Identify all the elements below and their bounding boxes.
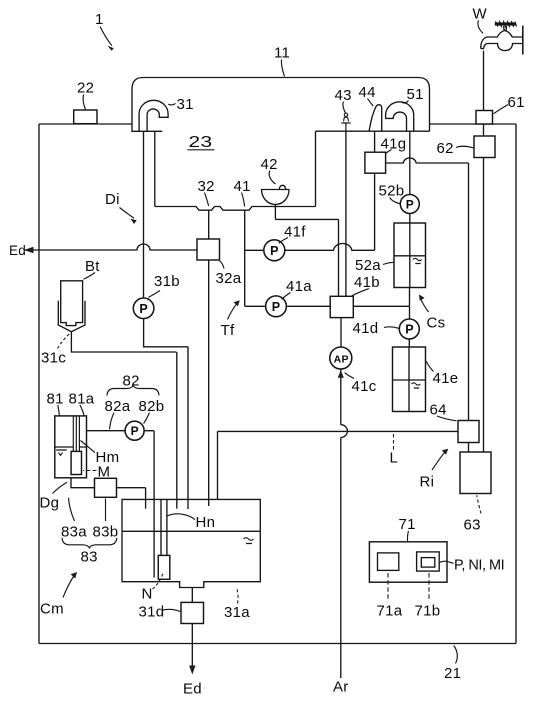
wire AP down with up-arrow, hop over L line, to Ar [341, 369, 348, 678]
svg-text:71: 71 [399, 516, 416, 533]
water level mark in 81 [56, 450, 66, 455]
svg-text:82a: 82a [105, 398, 131, 415]
wire inner chamber left edge down to line A [315, 131, 317, 206]
component 81 degassing vessel [55, 416, 87, 478]
wire 61 to 62 [483, 124, 485, 136]
valve 62 box [474, 136, 495, 158]
component 71b box double border [417, 552, 440, 571]
svg-text:Ri: Ri [420, 474, 435, 491]
wire 52b to tank 52a [409, 214, 411, 224]
svg-text:P: P [405, 323, 414, 337]
svg-text:81a: 81a [69, 391, 95, 408]
wire 62 down to 63 [483, 158, 485, 453]
svg-text:63: 63 [464, 517, 481, 534]
svg-text:41d: 41d [353, 320, 379, 337]
faucet W body [481, 26, 523, 51]
svg-text:Hn: Hn [196, 514, 216, 531]
tank 52a internals [394, 223, 426, 288]
svg-text:31a: 31a [224, 604, 250, 621]
component Bt holder funnel [58, 301, 85, 332]
svg-text:41c: 41c [352, 378, 377, 395]
wire line 32a down to tank [208, 260, 210, 506]
svg-text:P: P [139, 302, 148, 316]
wire line 31c elbow to tank [71, 332, 176, 509]
wire L line [218, 431, 459, 499]
component 83b box [95, 478, 117, 497]
svg-text:21: 21 [444, 665, 461, 682]
pump P 31b [133, 298, 154, 319]
component N float weight [158, 555, 170, 579]
svg-text:L: L [390, 450, 399, 467]
svg-text:P, NI, MI: P, NI, MI [454, 558, 505, 574]
wire faucet supply down to 61 [483, 51, 485, 111]
tank 52a [394, 223, 426, 288]
component 42 funnel [261, 185, 290, 204]
wire sump to 31d [191, 588, 193, 603]
svg-text:31d: 31d [139, 604, 165, 621]
svg-text:31c: 31c [41, 350, 66, 367]
svg-text:44: 44 [359, 84, 376, 101]
wire Ed line with hop over Di line [24, 244, 197, 250]
wire pump 82 outlet elbow into tank [144, 431, 154, 578]
svg-text:P: P [131, 424, 139, 438]
valve 43 symbol [341, 117, 350, 131]
wire 41d to 41e [408, 339, 410, 347]
faucet W handle [495, 22, 516, 25]
wire line 41 vertical [244, 210, 246, 306]
valve 41g box [365, 152, 386, 173]
valve 41b box [330, 296, 353, 317]
svg-text:32a: 32a [216, 270, 242, 287]
controller 71 box [369, 542, 447, 582]
component Bt bottle [61, 281, 83, 326]
wire 41b down to AP [340, 318, 342, 347]
wire 41f line with hop over twin pipes [245, 243, 375, 250]
dip tube Hn [161, 499, 167, 555]
svg-text:Cs: Cs [427, 315, 446, 332]
svg-text:71b: 71b [415, 603, 441, 620]
wire inner chamber top edge y131 [316, 124, 430, 131]
svg-text:71a: 71a [377, 603, 403, 620]
wire line B elbow to pipe [275, 219, 338, 296]
wire 41g to 64 with hop over 52b line [386, 158, 469, 421]
svg-text:P: P [270, 244, 279, 258]
component 22 vent box on tank top [74, 110, 97, 124]
svg-text:41: 41 [234, 178, 251, 195]
svg-text:52a: 52a [355, 257, 381, 274]
wire outer-box-21 top edge right segment [430, 123, 517, 125]
svg-text:31b: 31b [154, 273, 180, 290]
pump P 52b [400, 195, 419, 214]
svg-text:11: 11 [274, 45, 290, 62]
svg-text:P: P [406, 198, 414, 212]
pump P 41a [266, 296, 287, 317]
component 44 flap [369, 105, 382, 132]
wire 81 bottom to 83b [71, 478, 95, 488]
wire line A y206.5 with tee notches [155, 207, 316, 211]
wire hook 51 down to pump 52b [409, 131, 411, 194]
wire 52a to 41d [409, 288, 411, 320]
svg-text:51: 51 [407, 86, 424, 103]
tank 41e [393, 347, 426, 412]
enclosure 11 rounded top box [132, 78, 430, 125]
svg-text:Ed: Ed [9, 243, 26, 258]
wire 81 to pump 82 [87, 430, 126, 432]
component 81 internal divider [55, 446, 87, 448]
pump P 41d [399, 319, 419, 339]
wire pump 31b outlet elbow to tank [144, 319, 188, 509]
wire step at box-11 lower-left / tank-23 ledge [132, 124, 162, 131]
wire 43 line down to 41b [345, 131, 347, 296]
svg-text:23: 23 [189, 134, 213, 151]
svg-text:Cm: Cm [40, 601, 64, 618]
svg-text:W: W [473, 6, 488, 23]
svg-text:41b: 41b [354, 274, 380, 291]
svg-text:22: 22 [77, 80, 94, 97]
water line in tank 31a [122, 530, 260, 532]
svg-text:42: 42 [261, 156, 278, 173]
tank 41e internals [393, 347, 426, 412]
wire line 32 down to valve 32a [208, 210, 210, 239]
wire 31d down across frame with arrow [191, 624, 193, 671]
tank 31a outline with sump [122, 499, 260, 587]
svg-text:Ed: Ed [183, 681, 202, 698]
component 71a box [378, 553, 399, 571]
component M motor box inside 81 [71, 451, 81, 474]
valve 32a box [197, 239, 220, 260]
component 81 inner tube [73, 416, 79, 452]
wire 64 to 63 [468, 443, 470, 453]
svg-text:83a: 83a [61, 524, 87, 541]
svg-text:AP: AP [334, 354, 349, 366]
svg-text:83: 83 [81, 549, 98, 566]
svg-text:Bt: Bt [85, 258, 100, 275]
svg-text:61: 61 [508, 94, 525, 111]
wire 83b to tank elbow [117, 488, 146, 509]
faucet W wall flange [522, 26, 524, 55]
wire funnel stem [274, 205, 276, 220]
svg-text:Dg: Dg [40, 495, 60, 512]
valve 61 box [476, 111, 493, 125]
wire 41b to 41d line [353, 305, 410, 307]
wire outer-box-21 top edge left segment [39, 123, 132, 125]
wire outer-box-21 right edge [515, 124, 517, 644]
water level mark in 31a [244, 538, 254, 544]
svg-text:N: N [142, 586, 153, 603]
svg-text:82b: 82b [139, 398, 165, 415]
svg-text:32: 32 [198, 178, 215, 195]
component 63 box [460, 452, 491, 494]
svg-text:62: 62 [437, 140, 454, 157]
pump P 41f [264, 240, 285, 261]
wire outer-box-21 bottom edge [39, 643, 516, 645]
svg-text:Tf: Tf [221, 322, 235, 339]
wire outer-box-21 left edge [38, 124, 40, 644]
brace 83 [62, 538, 117, 548]
svg-text:Di: Di [105, 191, 120, 208]
svg-text:41e: 41e [433, 370, 459, 387]
svg-text:52b: 52b [379, 183, 405, 200]
wire 41a line [245, 305, 331, 307]
wire pipe below hook 31 (double line) [144, 131, 155, 298]
svg-text:41g: 41g [381, 136, 407, 153]
svg-text:81: 81 [47, 391, 64, 408]
svg-text:83b: 83b [93, 524, 119, 541]
svg-text:Ar: Ar [333, 679, 349, 696]
pump P 82ab [125, 421, 144, 440]
valve 64 box [458, 421, 479, 443]
svg-text:1: 1 [95, 11, 104, 28]
wire 44 down through 41g [374, 131, 376, 250]
valve 31d box [181, 602, 204, 623]
pipe hook 31 (gooseneck) [139, 100, 168, 131]
svg-text:P: P [272, 300, 281, 314]
pipe hook 51 (gooseneck) [386, 102, 414, 131]
svg-text:31: 31 [177, 96, 194, 113]
sensor AP circle [330, 347, 352, 369]
